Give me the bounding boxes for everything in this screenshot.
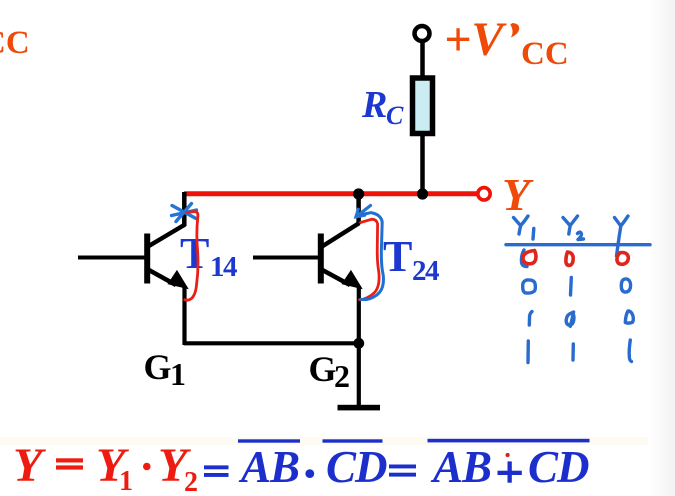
svg-text:1: 1 xyxy=(119,466,133,496)
row1 blue under-marks xyxy=(521,250,527,267)
transistor T24 xyxy=(253,194,363,406)
header Y1 xyxy=(514,216,529,234)
header Y2 xyxy=(563,216,578,234)
overline CD xyxy=(323,439,383,442)
equation red part: Y = Y1 . Y2 xyxy=(13,439,198,496)
overline AB+CD xyxy=(428,439,590,443)
label RC xyxy=(361,84,404,130)
row4 Y1=1 xyxy=(526,341,530,363)
T24 collector stub xyxy=(356,194,361,224)
svg-text:Y: Y xyxy=(13,439,46,492)
overline AB xyxy=(238,439,300,442)
svg-text:R: R xyxy=(361,84,387,126)
T14 emitter diagonal xyxy=(148,270,176,286)
svg-text:CD: CD xyxy=(528,442,589,492)
table rule xyxy=(506,243,650,246)
row2 Y=0 xyxy=(621,279,630,292)
T14 collector diagonal xyxy=(148,225,185,247)
red tick above plus xyxy=(506,453,510,457)
row3 Y1=1 xyxy=(529,312,532,326)
svg-text:2: 2 xyxy=(334,358,350,394)
junction dot emitter G2 xyxy=(353,338,364,349)
T14 collector stub xyxy=(182,192,187,226)
annotation red brace T24 xyxy=(360,219,380,300)
transistor T14 xyxy=(78,192,189,345)
svg-text:AB: AB xyxy=(430,442,491,492)
T14 emitter wire xyxy=(182,286,186,345)
handwritten truth table xyxy=(506,216,650,363)
T14 base bar xyxy=(144,234,150,284)
label G2 xyxy=(309,349,351,394)
row1 Y=0 red xyxy=(617,253,628,265)
row4 Y=1 xyxy=(629,340,631,362)
annotation blue asterisk at T14 collector xyxy=(172,204,197,222)
T14 base lead xyxy=(78,256,147,260)
svg-text:T: T xyxy=(180,229,209,278)
wire terminal to resistor xyxy=(420,41,425,77)
svg-text:G: G xyxy=(309,349,337,389)
label G1 xyxy=(144,347,187,392)
svg-text:CD: CD xyxy=(326,442,387,492)
row1 red zeros xyxy=(523,251,628,266)
svg-text:14: 14 xyxy=(210,251,237,283)
row3 Y2=0 xyxy=(566,312,574,326)
row4 Y2=1 xyxy=(571,344,575,360)
resistor RC xyxy=(413,78,433,134)
T24 collector diagonal xyxy=(322,223,359,247)
svg-text:Y: Y xyxy=(502,169,534,220)
annotation blue arrow at T24 collector xyxy=(356,206,371,217)
output terminal Y xyxy=(478,188,490,200)
annotation blue brace T24 xyxy=(361,213,384,300)
svg-text:24: 24 xyxy=(412,255,439,287)
equation blue part xyxy=(204,439,590,492)
svg-text:G: G xyxy=(144,347,172,387)
T24 emitter diagonal xyxy=(322,270,351,286)
junction dot T24 collector xyxy=(353,188,364,199)
svg-text:C: C xyxy=(386,101,404,130)
label T24 xyxy=(383,232,439,287)
svg-text:1: 1 xyxy=(170,356,186,392)
annotation red squiggle T14 xyxy=(185,212,198,301)
junction dot resistor xyxy=(417,188,428,199)
row2 Y1=0 xyxy=(523,280,536,293)
ground xyxy=(338,405,381,411)
T24 base bar xyxy=(318,234,324,284)
red output wire (wired-AND net) xyxy=(184,191,477,196)
row3 Y=0 xyxy=(625,311,633,323)
label T14 xyxy=(180,229,237,283)
T14 emitter arrowhead xyxy=(167,270,189,290)
terminal (+Vcc) circle xyxy=(415,26,430,41)
header Y xyxy=(615,216,629,256)
T24 emitter arrowhead xyxy=(341,270,363,290)
row2 Y2=1 xyxy=(569,278,573,296)
svg-text:CC: CC xyxy=(0,25,30,61)
label +V'CC xyxy=(444,13,569,72)
svg-text:AB: AB xyxy=(238,442,299,492)
T24 emitter wire xyxy=(357,286,361,406)
row1 Y1=0 red xyxy=(523,251,536,264)
row1 Y2=0 red xyxy=(566,252,573,265)
T24 base lead xyxy=(253,256,321,260)
right edge shading xyxy=(648,0,675,496)
wire resistor to output net xyxy=(420,133,425,194)
svg-text:+V: +V xyxy=(444,13,507,66)
svg-text:T: T xyxy=(383,232,412,281)
svg-text:2: 2 xyxy=(184,467,198,496)
bottom wire G1 to G2 xyxy=(184,341,359,345)
svg-text:CC: CC xyxy=(521,36,569,72)
